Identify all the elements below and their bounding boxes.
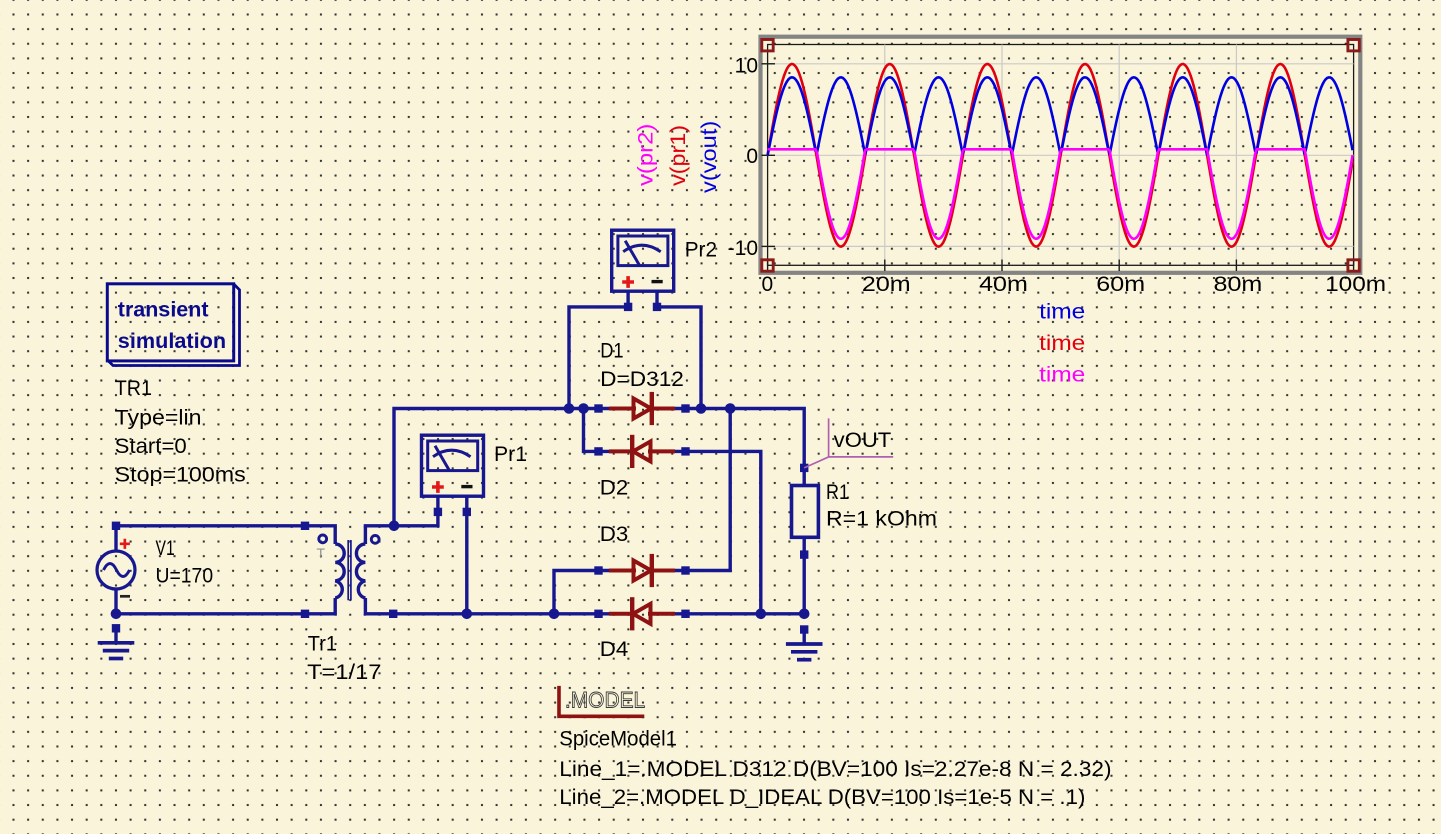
svg-text:.MODEL: .MODEL (565, 688, 645, 713)
junction secondary top node (389, 521, 400, 532)
svg-text:TR1: TR1 (115, 377, 152, 400)
junction D1 out / Pr2- (696, 403, 707, 414)
svg-text:T: T (317, 545, 326, 561)
wire to D2 cathode (584, 409, 599, 452)
junction V1- / ground (111, 609, 122, 620)
junction D1 rail / Pr2+ (564, 403, 575, 414)
junction R1 bottom / ground (799, 609, 810, 620)
wire Pr2 - to D1 cathode rail (658, 307, 701, 409)
wire bottom rail to D4 (393, 612, 598, 615)
svg-text:R1: R1 (826, 481, 849, 504)
svg-text:10: 10 (735, 55, 758, 78)
svg-text:60m: 60m (1096, 273, 1145, 296)
svg-text:40m: 40m (979, 273, 1028, 296)
wire Pr2 + to D1 rail (569, 307, 628, 409)
junction D1 out / D3 branch (725, 403, 736, 414)
svg-text:R=1 kOhm: R=1 kOhm (826, 508, 937, 531)
svg-text:0: 0 (762, 273, 774, 296)
resistor R1 (792, 464, 819, 559)
svg-text:Stop=100ms: Stop=100ms (115, 464, 246, 487)
label V1 (156, 537, 214, 588)
svg-text:simulation: simulation (118, 330, 226, 353)
svg-text:Tr1: Tr1 (308, 632, 337, 655)
wire R1 to ground node (803, 555, 806, 614)
diode D2 (594, 437, 689, 466)
wire to D3 anode (554, 571, 599, 614)
wire D2 anode to bottom rail (686, 451, 761, 613)
SPICE .MODEL block SpiceModel1 (559, 686, 645, 716)
wire secondary top to D1 rail (394, 409, 599, 526)
wire V1- to Tr1 primary bottom (116, 612, 305, 615)
plot axes box (762, 45, 1354, 272)
svg-text:Pr2: Pr2 (685, 238, 717, 261)
curve v(pr1) (red) (768, 64, 1353, 247)
svg-text:Type=lin: Type=lin (115, 406, 202, 429)
label R1 (826, 481, 937, 531)
svg-text:D=D312: D=D312 (600, 368, 684, 391)
svg-text:80m: 80m (1214, 273, 1263, 296)
x axis labels (762, 273, 1387, 296)
curve v(vout) (blue) (768, 77, 1353, 155)
svg-text:D3: D3 (600, 523, 629, 546)
transformer Tr1 (301, 522, 398, 618)
svg-text:20m: 20m (862, 273, 911, 296)
svg-text:Line_1=.MODEL D312 D(BV=100 Is: Line_1=.MODEL D312 D(BV=100 Is=2.27e-8 N… (559, 758, 1111, 781)
node label vOUT (804, 418, 893, 468)
svg-text:D1: D1 (600, 339, 623, 362)
svg-text:D4: D4 (600, 638, 629, 661)
waveform diagram frame (761, 37, 1361, 273)
voltmeter probe Pr2 (612, 230, 674, 311)
diagram corner handles (762, 40, 1360, 272)
svg-text:T=1/17: T=1/17 (307, 661, 381, 684)
label SpiceModel1 lines (559, 728, 1111, 809)
voltage source V1 (97, 522, 135, 614)
svg-text:Pr1: Pr1 (494, 443, 527, 466)
svg-text:v(pr2): v(pr2) (635, 124, 658, 186)
y axis labels (728, 55, 758, 260)
svg-text:v(vout): v(vout) (698, 121, 721, 193)
svg-text:vOUT: vOUT (834, 429, 892, 452)
svg-text:time: time (1039, 300, 1085, 323)
diode D4 (594, 599, 689, 628)
TR1 parameter labels (115, 377, 246, 487)
junction bottom rail / D2 branch (756, 609, 767, 620)
label D1 (600, 339, 684, 391)
svg-text:Start=0: Start=0 (115, 435, 187, 458)
junction bottom rail / Pr1 (462, 609, 473, 620)
svg-text:U=170: U=170 (156, 565, 214, 588)
svg-text:-10: -10 (728, 237, 758, 260)
svg-text:SpiceModel1: SpiceModel1 (559, 728, 677, 751)
svg-text:time: time (1039, 332, 1085, 355)
wire Pr1 - pin to bottom rail (465, 512, 468, 614)
svg-text:V1: V1 (156, 537, 175, 560)
transient simulation block TR1 (107, 284, 239, 366)
wire D1 cathode to R1/vOUT (686, 409, 805, 468)
voltmeter probe Pr1 (422, 435, 484, 516)
wire to Pr1 + pin (394, 512, 438, 526)
svg-text:time: time (1039, 364, 1085, 387)
svg-text:v(pr1): v(pr1) (667, 125, 690, 186)
svg-text:100m: 100m (1325, 273, 1386, 296)
curve v(pr2) (magenta) (768, 149, 1353, 239)
wire D4 to ground node (686, 612, 805, 615)
wire V1+ to Tr1 primary top (116, 524, 305, 527)
svg-text:D2: D2 (600, 477, 629, 500)
ground (right) (786, 625, 823, 659)
label Tr1 (307, 632, 381, 684)
svg-text:0: 0 (746, 145, 758, 168)
svg-text:transient: transient (118, 299, 209, 322)
svg-text:Line_2=.MODEL D_IDEAL D(BV=100: Line_2=.MODEL D_IDEAL D(BV=100 Is=1e-5 N… (559, 786, 1085, 809)
junction D1 rail / D2 branch (578, 403, 589, 414)
junction bottom rail / D3 branch (549, 609, 560, 620)
wire to D3 cathode (686, 409, 731, 571)
ground (left) (98, 624, 135, 658)
x variable labels time (1039, 300, 1085, 386)
diode D3 (594, 556, 689, 585)
diode D1 (594, 394, 689, 423)
